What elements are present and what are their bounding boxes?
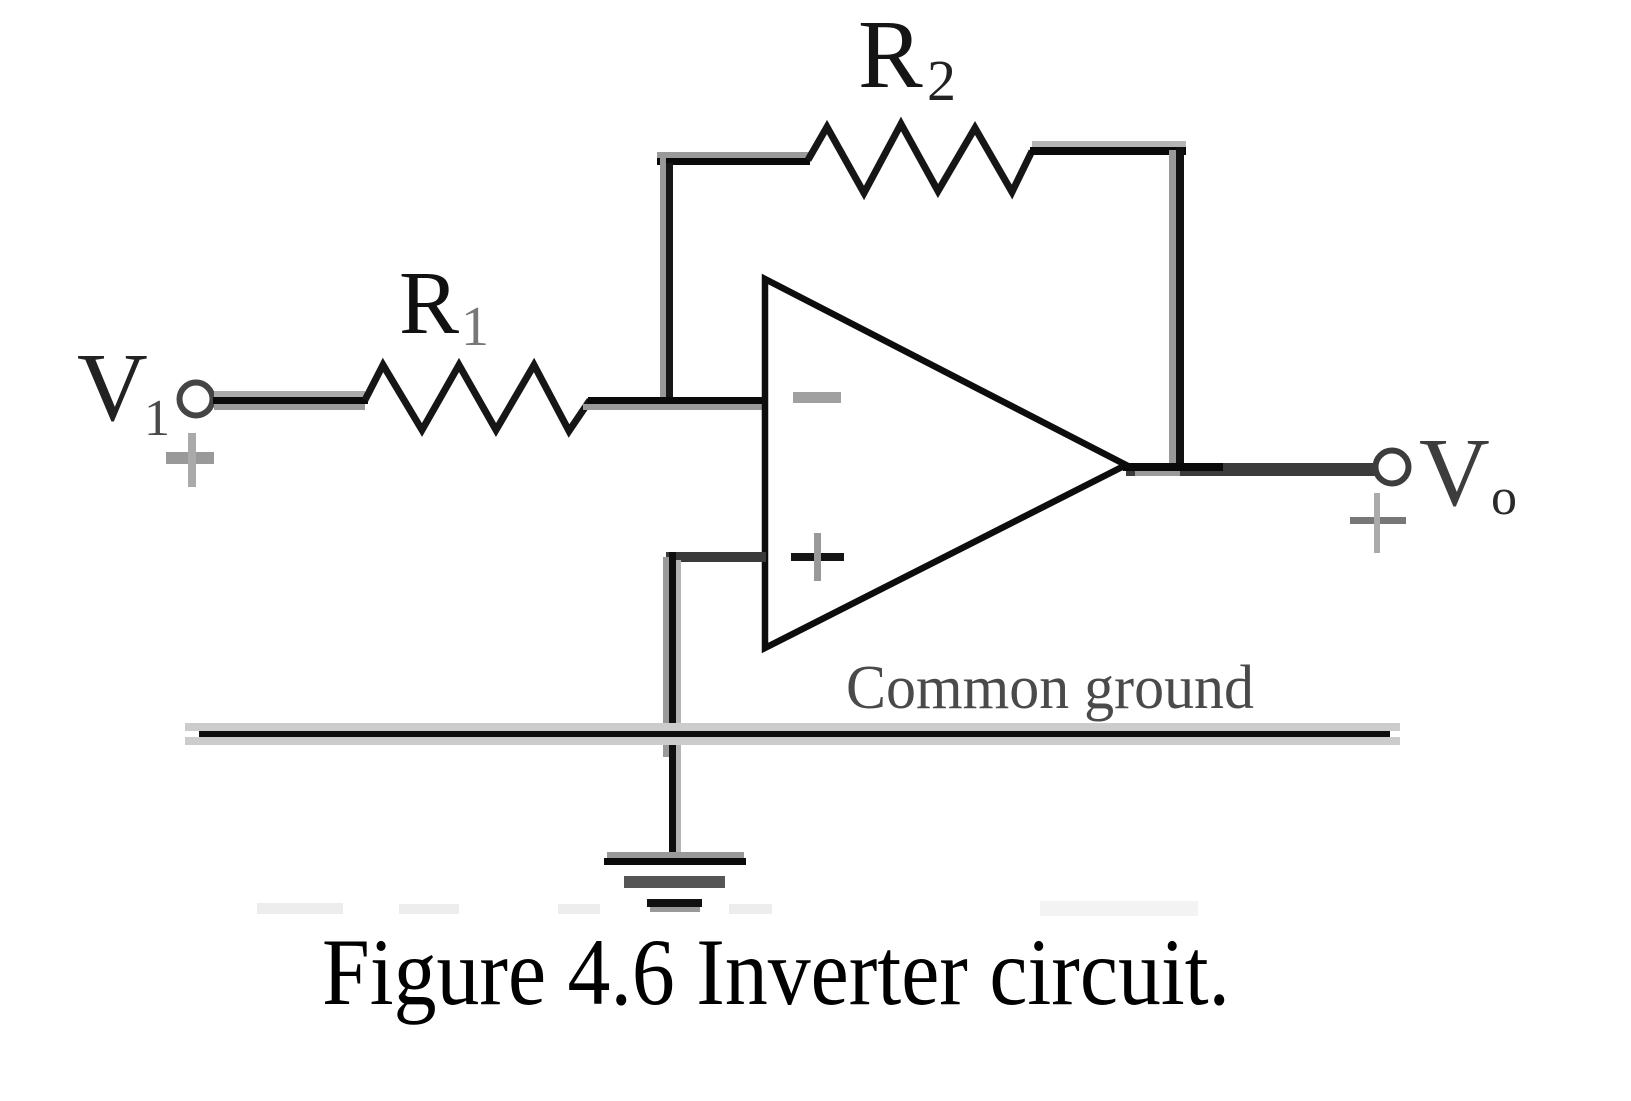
svg-text:Figure 4.6 Inverter circuit.: Figure 4.6 Inverter circuit. — [322, 919, 1230, 1025]
svg-text:Common ground: Common ground — [846, 654, 1254, 722]
svg-text:1: 1 — [461, 296, 489, 358]
svg-text:V: V — [77, 334, 148, 442]
svg-text:1: 1 — [144, 390, 170, 447]
svg-text:V: V — [1419, 419, 1490, 527]
svg-text:o: o — [1491, 469, 1517, 526]
svg-text:R: R — [399, 254, 459, 353]
svg-text:2: 2 — [927, 48, 956, 113]
svg-text:R: R — [858, 1, 923, 108]
